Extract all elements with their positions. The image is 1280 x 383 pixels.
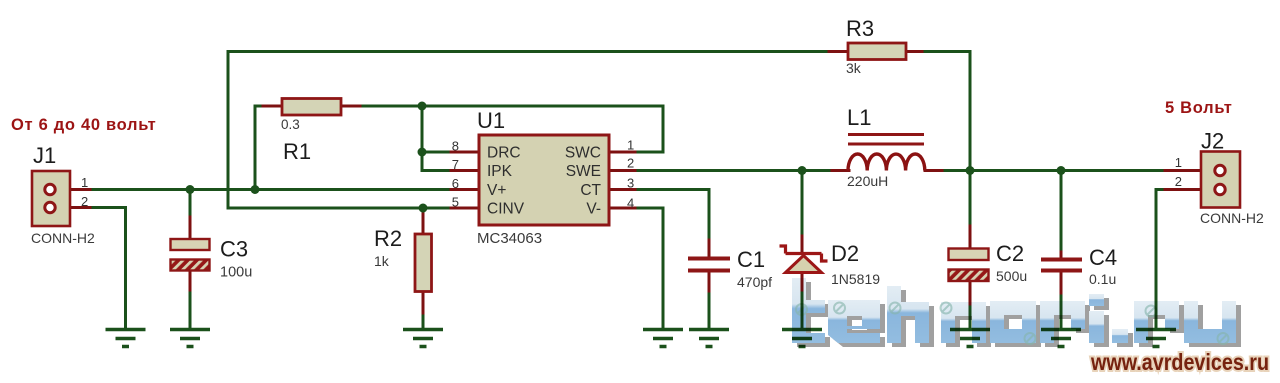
wire main V+ net J1 pin1 to U1 pin6 (88, 188, 452, 191)
capacitor C4 plates (1041, 258, 1082, 262)
ground (C3) (170, 330, 210, 347)
wire top feedback net from R3 to CINV column (228, 52, 830, 209)
ground (R2) (403, 330, 443, 347)
capacitor C2 bottom hatched plate (949, 270, 989, 282)
wire C4 branch (1060, 171, 1063, 254)
svg-text:100u: 100u (220, 265, 252, 281)
pin stub U1 pin4 (609, 207, 635, 210)
pin stub U1 pin7 (451, 169, 479, 172)
inductor L1 coil (848, 154, 925, 171)
svg-text:0.1u: 0.1u (1089, 271, 1116, 287)
pin stub C2 top (969, 226, 972, 248)
junction node C4 (1057, 166, 1066, 175)
resistor R1 (282, 99, 341, 116)
pin stub R2 bottom (422, 292, 425, 314)
svg-text:3: 3 (627, 176, 634, 191)
pin stub U1 pin6 (451, 188, 479, 191)
pin stub J2 pin2 (1165, 188, 1201, 191)
capacitor C3 bottom hatched plate (171, 260, 210, 271)
junction node pin8 (418, 148, 427, 157)
wire C1 bottom to ground (708, 290, 711, 327)
svg-text:C3: C3 (220, 237, 248, 262)
svg-text:CONN-H2: CONN-H2 (31, 230, 95, 246)
svg-text:CT: CT (580, 182, 601, 199)
capacitor C2 top plate (949, 249, 989, 261)
svg-text:CINV: CINV (487, 201, 525, 218)
wire C2 bottom to ground (969, 303, 972, 327)
svg-text:1: 1 (1175, 155, 1182, 170)
svg-text:C4: C4 (1089, 245, 1117, 270)
svg-text:V+: V+ (487, 182, 506, 199)
svg-text:1k: 1k (374, 253, 390, 269)
pin stub C4 bottom (1060, 273, 1063, 294)
svg-text:500u: 500u (996, 268, 1027, 284)
label U1 pin names (487, 145, 602, 218)
svg-text:L1: L1 (847, 105, 871, 130)
resistor R2 (415, 234, 432, 292)
svg-text:0.3: 0.3 (281, 117, 300, 132)
pin stub J1 pin2 (70, 206, 90, 209)
pin stub C2 bottom (969, 283, 972, 304)
wire R2 top leg (422, 208, 425, 215)
wire R3 right to output node vertical (922, 52, 971, 228)
svg-text:2: 2 (627, 156, 634, 171)
pin stub R2 top (422, 214, 425, 234)
ground (J1 pin2) (106, 330, 146, 347)
wire J1 pin2 to ground (88, 208, 126, 328)
pin stub J2 pin1 (1165, 169, 1201, 172)
svg-text:8: 8 (452, 139, 459, 154)
pin stub R1 right (341, 105, 360, 108)
junction node R1 left/V+ (251, 185, 260, 194)
svg-text:1N5819: 1N5819 (831, 271, 880, 287)
svg-text:R1: R1 (283, 139, 311, 164)
pin stub U1 pin8 (451, 151, 479, 154)
resistor R3 (848, 43, 906, 60)
wire R1 left leg (255, 106, 264, 190)
pin stub C3 top (189, 217, 192, 239)
svg-text:J2: J2 (1201, 129, 1224, 154)
capacitor C1 plates (688, 257, 730, 261)
wire D2 branch (801, 171, 804, 238)
pin stub J1 pin1 (70, 188, 90, 191)
wire node to SWC pin1 (422, 106, 663, 152)
ground (C4) (1041, 330, 1081, 347)
pin stub R3 left (829, 50, 848, 53)
junction node R1 right (418, 102, 427, 111)
svg-text:2: 2 (1175, 174, 1182, 189)
svg-text:C2: C2 (996, 241, 1024, 266)
svg-text:U1: U1 (477, 108, 505, 133)
svg-text:5 Вольт: 5 Вольт (1165, 99, 1233, 117)
svg-text:5: 5 (452, 195, 459, 210)
svg-text:CONN-H2: CONN-H2 (1200, 210, 1264, 226)
svg-text:4: 4 (627, 196, 634, 211)
pin stub R3 right (906, 50, 923, 53)
pin stub C3 bottom (189, 271, 192, 290)
inductor L1 core bars (848, 133, 924, 136)
ground (C1) (689, 330, 729, 347)
junction node CINV/R2 (419, 204, 428, 213)
svg-text:D2: D2 (831, 241, 859, 266)
connector J1 (32, 171, 70, 226)
pin stub U1 pin5 (451, 207, 479, 210)
svg-text:SWE: SWE (566, 163, 601, 180)
pin stub L1 right (925, 169, 942, 172)
junction node output/C2 (966, 166, 975, 175)
watermark tehnari.ru (792, 278, 1241, 347)
diode D2 schottky (780, 246, 828, 261)
svg-text:R2: R2 (374, 226, 402, 251)
ground (U1 V-) (643, 330, 683, 347)
wire J2 pin2 to ground (1156, 190, 1166, 328)
junction node C3/V+ (186, 185, 195, 194)
pin stub D2 cathode (801, 236, 804, 252)
junction node D2/SWE (798, 166, 807, 175)
svg-text:IPK: IPK (487, 163, 513, 180)
wire output node to J2 pin1 (970, 169, 1166, 172)
ground (J2 pin2) (1136, 330, 1176, 347)
svg-text:www.avrdevices.ru: www.avrdevices.ru (1090, 349, 1269, 375)
svg-text:J1: J1 (33, 143, 56, 168)
svg-text:DRC: DRC (487, 145, 521, 162)
svg-text:MC34063: MC34063 (477, 230, 542, 247)
svg-text:7: 7 (452, 157, 459, 172)
svg-text:1: 1 (627, 138, 634, 153)
wire V- pin4 to ground (634, 208, 663, 327)
svg-text:C1: C1 (737, 247, 765, 272)
pin stub U1 pin2 (609, 169, 635, 172)
pin stub D2 anode (801, 273, 804, 290)
IC U1 body (479, 135, 609, 225)
svg-text:R3: R3 (846, 16, 874, 41)
ground (D2) (782, 330, 822, 347)
capacitor C3 top plate (171, 239, 210, 250)
svg-text:От 6 до 40 вольт: От 6 до 40 вольт (11, 116, 156, 134)
svg-text:2: 2 (81, 194, 88, 209)
wire C3 branch (189, 190, 192, 220)
pin stub U1 pin3 (609, 188, 635, 191)
svg-text:3k: 3k (846, 60, 862, 76)
pin stub R1 left (263, 105, 282, 108)
wire SWE net pin2 to L1 and output (634, 169, 833, 172)
wire R1 right to pins 8 and 7 (359, 106, 422, 152)
ground (C2) (950, 330, 990, 347)
pin stub L1 left (832, 169, 849, 172)
wire CT pin3 to C1 (634, 190, 709, 242)
svg-text:220uH: 220uH (847, 173, 888, 189)
wire R2 bottom to ground (422, 312, 425, 327)
svg-text:SWC: SWC (565, 145, 601, 162)
svg-text:6: 6 (452, 176, 459, 191)
pin stub C1 bottom (708, 273, 711, 292)
svg-text:470pf: 470pf (737, 274, 772, 290)
pin stub C1 top (708, 240, 711, 257)
pin stub C4 top (1060, 252, 1063, 258)
connector J2 (1201, 152, 1240, 208)
pin stub U1 pin1 (609, 151, 635, 154)
svg-text:V-: V- (586, 201, 601, 218)
svg-text:1: 1 (81, 175, 88, 190)
